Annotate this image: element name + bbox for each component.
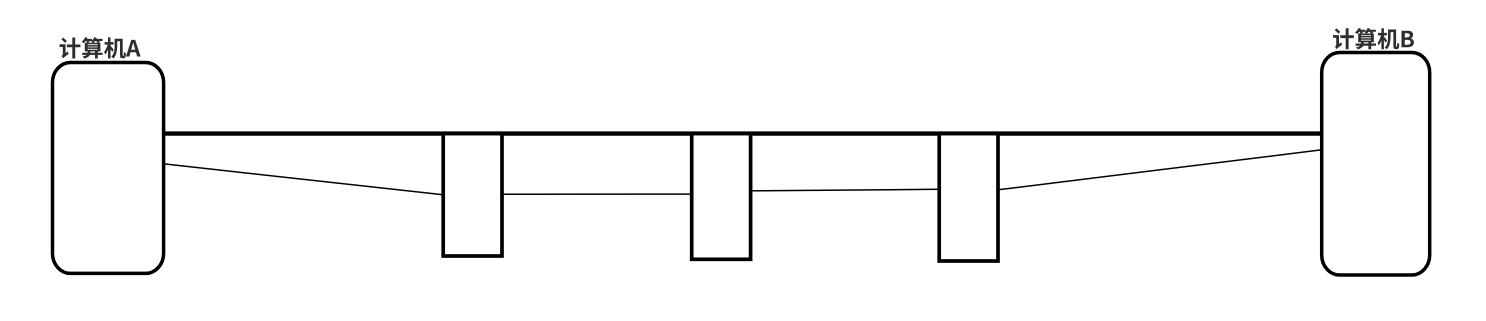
repeater box 2: [692, 134, 751, 260]
label 计算机A: [60, 37, 141, 58]
repeater box 1: [443, 134, 502, 256]
wire repeater 2 to repeater 3: [751, 189, 939, 191]
wire repeater 3 to computer B: [998, 150, 1322, 190]
wire repeater 1 to repeater 2: [502, 193, 691, 195]
computer A box: [53, 63, 164, 274]
bus line A to B: [162, 131, 1323, 135]
label 计算机B: [1333, 28, 1414, 49]
computer B box: [1322, 53, 1430, 276]
wire computer A to repeater 1: [163, 164, 442, 195]
repeater box 3: [939, 134, 998, 261]
